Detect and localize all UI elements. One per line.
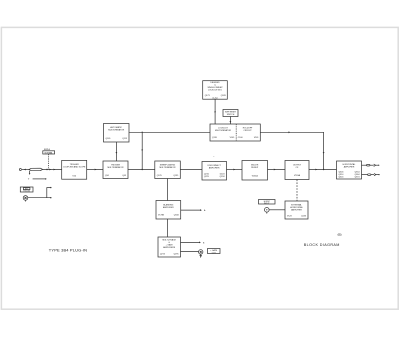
wire box1 to box2 bbox=[87, 169, 103, 171]
wire box3 to box4 bbox=[180, 169, 202, 171]
svg-text:SWP A: SWP A bbox=[44, 148, 51, 151]
wire holdoff to sweep line (right, with corner) bbox=[260, 132, 323, 169]
wire box4 to box5 bbox=[227, 169, 243, 171]
arrowhead down bbox=[116, 152, 118, 154]
connector ext trig bbox=[23, 196, 28, 202]
svg-text:NORMAL: NORMAL bbox=[45, 151, 53, 154]
wire box8 output lower bbox=[362, 173, 380, 175]
svg-text:TYPE 3B4 PLUG-IN: TYPE 3B4 PLUG-IN bbox=[49, 248, 87, 253]
arrowhead bbox=[199, 242, 201, 244]
arrowhead bbox=[233, 169, 235, 171]
svg-text:MULTIVIBRATOR: MULTIVIBRATOR bbox=[108, 166, 124, 169]
box 10 multi-trace and +gate amplifiers bbox=[158, 237, 181, 257]
node junction on main row bbox=[142, 169, 143, 170]
arrowhead down wire bbox=[141, 150, 143, 152]
wire junction down to trigger line bbox=[141, 132, 143, 169]
box B sweep reset switch bbox=[223, 110, 238, 117]
svg-text:SWITCH: SWITCH bbox=[227, 114, 235, 116]
arrowhead on wire B bbox=[230, 121, 232, 123]
svg-text:TRIG IN: TRIG IN bbox=[23, 191, 30, 193]
box 8 horizontal amplifier bbox=[337, 161, 362, 179]
connector +gate out bbox=[199, 250, 203, 258]
svg-text:BLOCK DIAGRAM: BLOCK DIAGRAM bbox=[304, 243, 340, 247]
dashed wire box6 down to ext horiz amplifier bbox=[296, 180, 298, 202]
arrowhead bbox=[274, 169, 276, 171]
arrowhead on wire A bbox=[214, 112, 216, 114]
wire box2 to box3 bbox=[128, 169, 155, 171]
wire box A to lockout MV bbox=[214, 99, 216, 124]
box 5 miller runup bbox=[242, 161, 268, 181]
box E automatic multivibrator bbox=[104, 124, 130, 143]
trigger input connector bbox=[19, 168, 61, 175]
label box G horiz input bbox=[259, 200, 276, 205]
dashed wire from J to input line bbox=[47, 154, 49, 170]
node junction holdoff drop bbox=[323, 169, 324, 170]
wire box10 output to gate connector bbox=[181, 250, 199, 252]
box C lockout multivibrator / box D holdoff circuit (shared frame) bbox=[210, 124, 260, 141]
input annotation line bbox=[28, 178, 47, 181]
wire box8 output upper bbox=[362, 164, 380, 166]
svg-text:V193A: V193A bbox=[294, 174, 301, 177]
svg-text:(B): (B) bbox=[337, 232, 341, 236]
wire ext trig to terminals bbox=[28, 187, 52, 198]
svg-text:V161A: V161A bbox=[252, 175, 259, 178]
box 9 blanking amplifier bbox=[156, 201, 181, 220]
svg-text:COUPLING AND SLOPE: COUPLING AND SLOPE bbox=[63, 166, 86, 169]
wire box B to lockout MV bbox=[229, 117, 231, 125]
wire auto MV down to trigger MV bbox=[115, 142, 117, 161]
box 3 sweep-gating multivibrator bbox=[155, 161, 181, 179]
wire box6 to box8 bbox=[309, 169, 337, 171]
connector horiz input bbox=[265, 208, 270, 214]
svg-text:CIRCUIT: CIRCUIT bbox=[243, 130, 252, 132]
box 2 trigger multivibrator bbox=[103, 161, 128, 179]
label box I +gate out bbox=[208, 249, 221, 255]
label box H ext trig input bbox=[20, 187, 33, 193]
svg-text:MULTIVIBRATOR: MULTIVIBRATOR bbox=[108, 129, 124, 132]
wire box9 down to box10 bbox=[166, 219, 168, 237]
arrowhead down on holdoff drop bbox=[323, 152, 325, 154]
svg-text:RUNUP: RUNUP bbox=[251, 167, 259, 169]
svg-text:V173B: V173B bbox=[158, 215, 165, 217]
wire horiz input to box7 bbox=[269, 209, 285, 211]
svg-text:AMPLIFIER: AMPLIFIER bbox=[163, 206, 174, 209]
svg-text:LOCKOUT M.V.: LOCKOUT M.V. bbox=[208, 89, 223, 91]
box 1 trigger coupling bbox=[62, 160, 87, 179]
svg-text:MULTIVIBRATOR: MULTIVIBRATOR bbox=[160, 166, 176, 169]
box 4 disconnect amplifier bbox=[202, 162, 227, 181]
arrowhead bbox=[315, 169, 317, 171]
wire box5 to box6 bbox=[268, 169, 286, 171]
box 7 external horizontal amplifier bbox=[285, 201, 308, 219]
box A delay &amp; single-sweep lockout MV bbox=[203, 81, 228, 100]
wire auto MV to lockout MV bbox=[129, 131, 210, 133]
arrowhead right on holdoff wire bbox=[289, 131, 291, 133]
svg-text:AMPLIFIER: AMPLIFIER bbox=[291, 209, 302, 212]
svg-text:Q125: Q125 bbox=[157, 175, 163, 177]
svg-text:Q135: Q135 bbox=[173, 175, 179, 177]
wire box10 output upper bbox=[181, 241, 201, 243]
svg-text:MULTIVIBRATOR: MULTIVIBRATOR bbox=[215, 129, 231, 132]
box 6 output CF bbox=[285, 161, 309, 180]
node junction at x 142 bbox=[142, 132, 143, 133]
arrowhead bbox=[95, 169, 97, 171]
svg-text:AMPLIFIERS: AMPLIFIERS bbox=[163, 246, 176, 249]
label box J normal bbox=[43, 151, 55, 154]
svg-text:AMPLIFIER: AMPLIFIER bbox=[344, 166, 355, 169]
wire box3 down to blanking amplifier bbox=[166, 179, 168, 201]
wire box9 output bbox=[181, 209, 201, 211]
svg-text:a: a bbox=[213, 156, 214, 158]
svg-text:INPUT: INPUT bbox=[264, 203, 271, 205]
svg-text:AMPLIFIER: AMPLIFIER bbox=[209, 167, 220, 170]
arrowhead box9 output bbox=[200, 209, 202, 211]
